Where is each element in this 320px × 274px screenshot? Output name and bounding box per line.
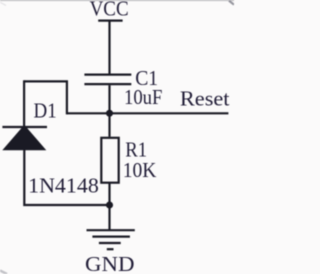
svg-text:GND: GND (85, 252, 135, 274)
wire down to diode D1 cathode (23, 80, 25, 126)
svg-text:1N4148: 1N4148 (28, 174, 99, 198)
svg-text:10K: 10K (123, 158, 157, 182)
wire resistor R1 bottom to node B (108, 183, 110, 205)
wire branch horizontal above diode D1 (24, 80, 68, 82)
svg-text:D1: D1 (34, 98, 57, 122)
power symbol VCC T-bar (98, 20, 122, 22)
wire VCC to C1 top (108, 21, 110, 74)
wire node B down to ground (108, 205, 110, 230)
wire branch vertical up from Reset net (66, 81, 68, 114)
diode D1 cathode bar (2, 126, 47, 128)
wire Reset net horizontal (67, 112, 229, 114)
wire C1 bottom to resistor R1 top through node A (108, 85, 110, 137)
ground symbol (87, 230, 135, 249)
top edge faint line (0, 0, 234, 2)
svg-text:10uF: 10uF (124, 85, 162, 109)
svg-text:VCC: VCC (90, 0, 129, 20)
node B junction dot (106, 201, 113, 208)
wire diode D1 anode down and right to node B (24, 150, 109, 206)
node A junction dot (106, 110, 113, 117)
diode D1 triangle (2, 125, 46, 150)
capacitor C1 bottom plate (84, 83, 131, 85)
capacitor C1 top plate (84, 73, 131, 75)
resistor R1 body (101, 138, 118, 183)
svg-text:Reset: Reset (180, 86, 230, 110)
